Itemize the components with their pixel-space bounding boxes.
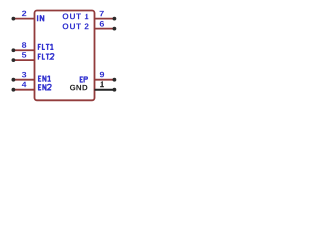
- pin name EN1: [38, 76, 51, 82]
- pin name EN2: [38, 84, 51, 90]
- pin number 7: [100, 11, 104, 16]
- wire pin 5: [13, 59, 34, 61]
- pin name EP: [80, 77, 88, 83]
- node pin 2 endpoint: [12, 17, 16, 21]
- node pin 7 endpoint: [113, 17, 117, 21]
- pin name IN: [38, 15, 44, 21]
- node pin 1 endpoint: [113, 88, 117, 92]
- wire pin 4: [13, 89, 34, 91]
- pin number 8: [22, 42, 26, 48]
- pin name FLT1: [38, 44, 54, 50]
- node pin 4 endpoint: [12, 88, 16, 92]
- node pin 6 endpoint: [113, 27, 117, 31]
- pin number 9: [100, 72, 104, 78]
- pin name FLT2: [38, 54, 54, 60]
- IC U1 body outline: [35, 11, 95, 101]
- wire pin 9: [95, 79, 115, 81]
- pin number 6: [100, 21, 104, 27]
- wire pin 8: [13, 49, 34, 51]
- pin name GND: [70, 85, 87, 91]
- wire pin 2: [13, 18, 34, 20]
- pin name OUT 1: [63, 13, 89, 19]
- wire pin 6: [95, 28, 115, 30]
- pin number 4: [22, 82, 27, 87]
- node pin 3 endpoint: [12, 78, 16, 82]
- pin name OUT 2: [63, 23, 89, 29]
- pin number 5: [22, 52, 26, 57]
- pin number 2: [22, 11, 26, 16]
- wire pin 3: [13, 79, 34, 81]
- pin number 3: [22, 72, 26, 78]
- node pin 5 endpoint: [12, 58, 16, 62]
- wire pin 1: [95, 89, 115, 91]
- wire pin 7: [95, 18, 115, 20]
- node pin 8 endpoint: [12, 48, 16, 52]
- node pin 9 endpoint: [113, 78, 117, 82]
- pin number 1: [100, 81, 104, 87]
